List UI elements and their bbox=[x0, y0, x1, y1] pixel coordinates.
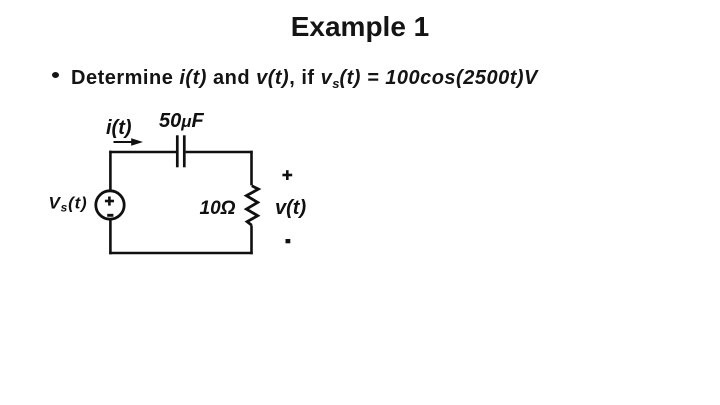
current arrow i(t) bbox=[114, 138, 144, 145]
capacitor C1 50uF plates bbox=[177, 135, 184, 167]
svg-text:50μF: 50μF bbox=[159, 110, 205, 132]
voltage source Vs bbox=[96, 191, 124, 219]
polarity minus of v(t) bbox=[286, 239, 291, 243]
wire top-right segment (capacitor to resistor top node) bbox=[186, 151, 253, 154]
wire right vertical upper (top node to resistor) bbox=[250, 151, 253, 186]
svg-text:v(t): v(t) bbox=[275, 197, 306, 219]
polarity plus of v(t) bbox=[282, 170, 292, 180]
resistor R1 zigzag bbox=[246, 186, 258, 225]
svg-text:Vs(t): Vs(t) bbox=[49, 194, 88, 215]
svg-text:10Ω: 10Ω bbox=[200, 198, 236, 219]
wire right vertical lower (resistor to bottom node) bbox=[250, 225, 253, 254]
wire top-left segment (source top node to capacitor) bbox=[109, 151, 176, 154]
svg-text:i(t): i(t) bbox=[106, 117, 132, 139]
wire bottom segment bbox=[109, 252, 252, 255]
wire left vertical upper (top node down to source) bbox=[109, 151, 112, 190]
wire left vertical lower (source to bottom node) bbox=[109, 220, 112, 254]
